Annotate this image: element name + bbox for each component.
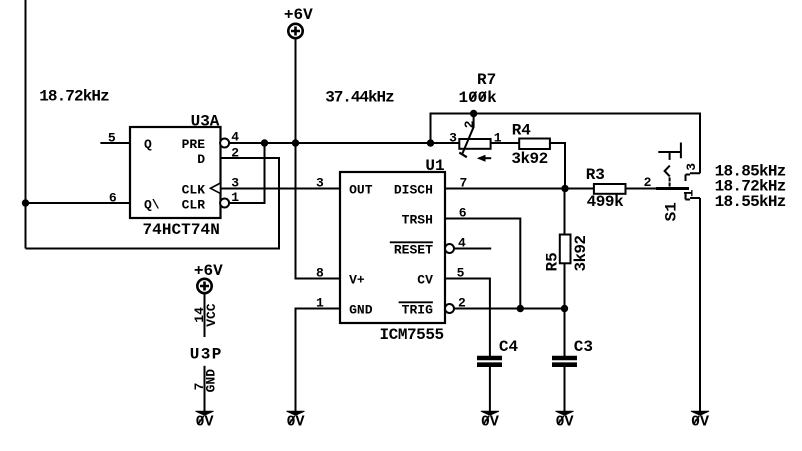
svg-text:3k92: 3k92 [572,235,590,272]
svg-text:37.44kHz: 37.44kHz [325,89,395,107]
svg-text:U1: U1 [425,157,444,175]
resistor R4 body [519,139,550,150]
junction TRIG-R5-C3 [561,305,568,312]
resistor R5 body [560,235,571,264]
svg-text:VCC: VCC [204,303,219,327]
svg-text:D: D [197,152,205,167]
svg-text:1: 1 [316,296,324,311]
svg-text:3: 3 [684,163,699,171]
svg-text:0V: 0V [287,414,305,431]
svg-text:U3P: U3P [190,345,222,363]
svg-text:S1: S1 [663,202,681,221]
svg-text:+6V: +6V [194,262,223,280]
svg-text:GND: GND [203,369,218,393]
pin bubble TRIG pin2 [445,304,454,313]
wire R7 pin1 to R4 [491,142,520,144]
wire CV pin5 to C4 [445,279,490,357]
svg-text:4: 4 [458,236,466,251]
wire GND pin1 down to ground [296,309,341,412]
switch S1 link dashes [669,177,671,186]
wire R5 bottom to C3 [564,263,566,356]
ground 0V at C4 [481,411,499,431]
svg-text:3: 3 [231,176,239,191]
ground 0V at S1 [691,411,709,431]
ground 0V at U3P [196,411,214,431]
svg-text:1: 1 [681,189,696,197]
wire R4 right down to DISCH net [550,143,565,189]
svg-text:2: 2 [462,120,477,128]
svg-text:3: 3 [449,131,457,146]
ground 0V at U1 GND [287,411,305,431]
switch S1 link upper segment [669,152,671,160]
wire +6V drop to V+ pin8 [296,39,341,279]
svg-text:5: 5 [457,266,465,281]
wire Q\ pin6 to left bus [26,202,131,204]
junction DISCH-R4-R3-R5 [561,185,568,192]
svg-text:0V: 0V [481,414,499,431]
svg-text:7: 7 [460,176,468,191]
svg-text:U3A: U3A [191,113,220,131]
svg-text:R5: R5 [544,252,562,271]
svg-text:TRIG: TRIG [402,302,433,317]
wire pin5 stub [100,142,130,144]
svg-text:C4: C4 [499,338,519,356]
wire RESET pin4 stub [454,248,491,250]
clock triangle CLK [211,183,221,194]
svg-text:Q: Q [144,137,152,152]
wire R5 top to DISCH junction [564,189,566,235]
junction at left bus / pin6 [22,199,29,206]
junction rail-PRE [427,139,434,146]
svg-text:1: 1 [494,131,502,146]
svg-text:0V: 0V [556,414,574,431]
svg-text:CLK: CLK [182,182,206,197]
switch S1 lever [656,187,689,190]
wire CLR up to PRE net [229,143,265,203]
svg-text:2: 2 [231,146,239,161]
wire U3P VCC pin [204,294,206,338]
op-amp U1 ICM7555 body [340,172,445,323]
switch S1 movable contact chevron [665,166,670,177]
wire S1 pin1 rail to ground [699,198,701,411]
svg-text:6: 6 [459,206,467,221]
svg-text:0V: 0V [196,414,214,431]
pin bubble PRE pin4 [220,139,229,148]
wire DISCH pin7 to R3 [445,188,594,190]
svg-text:R4: R4 [512,121,532,139]
svg-text:0V: 0V [691,414,709,431]
R7 adjust arrow [479,157,491,159]
svg-text:CLR: CLR [182,197,206,212]
svg-text:2: 2 [458,296,466,311]
wire C3 to ground [564,367,566,411]
wire PRE net to R7 pin3 [229,142,459,144]
junction CLR-PRE [261,139,268,146]
svg-text:PRE: PRE [182,137,206,152]
svg-text:+6V: +6V [284,6,313,24]
svg-text:ICM7555: ICM7555 [380,326,445,344]
resistor R7 body (trimmer) [459,139,490,149]
wire left vertical bus from top [25,0,27,249]
svg-text:100k: 100k [459,89,498,107]
switch S1 pin3 contact [686,173,701,181]
svg-text:8: 8 [316,266,324,281]
svg-text:5: 5 [108,131,116,146]
ground 0V at C3 [556,411,574,431]
svg-text:18.72kHz: 18.72kHz [39,88,110,106]
svg-text:R3: R3 [586,166,605,184]
svg-text:Q\: Q\ [144,197,160,212]
wire TRIG pin2 net [454,308,565,310]
junction R7 wiper-rail [470,110,477,117]
svg-text:RESET: RESET [394,242,433,257]
svg-text:CV: CV [417,272,433,287]
svg-text:499k: 499k [587,193,624,211]
svg-text:74HCT74N: 74HCT74N [143,221,220,239]
resistor R3 body [594,184,626,194]
junction TRSH-TRIG [517,305,524,312]
svg-text:TRSH: TRSH [402,212,433,227]
switch S1 pin1 contact [686,193,701,200]
wire CLK to U1 OUT [221,188,341,190]
switch S1 actuator T-bar [658,143,681,159]
wire top rail [431,114,701,174]
capacitor C4 plates [477,358,502,365]
capacitor C3 plates [552,358,577,365]
resistor R7 wiper arm [462,114,474,155]
junction +6V-PRE [292,139,299,146]
svg-text:C3: C3 [574,338,593,356]
wire TRSH pin6 down to TRIG net [445,219,520,309]
svg-text:V+: V+ [349,272,365,287]
wire bottom wrap from left bus to D [26,158,280,249]
svg-text:DISCH: DISCH [394,182,433,197]
svg-text:6: 6 [109,190,117,205]
pin bubble CLR pin1 [220,199,229,208]
svg-text:1: 1 [231,190,239,205]
svg-text:R7: R7 [477,71,496,89]
supply +6V top [288,24,302,38]
svg-text:3k92: 3k92 [511,150,548,168]
R7 wiper arrowhead foot [459,153,467,158]
flip-flop U3A body [130,127,221,218]
svg-text:GND: GND [349,302,373,317]
svg-text:OUT: OUT [349,182,373,197]
pin bubble RESET pin4 [445,244,454,253]
svg-text:2: 2 [644,175,652,190]
supply +6V U3P [197,279,211,293]
wire U3P GND pin [204,366,206,411]
svg-text:4: 4 [231,130,239,145]
svg-text:3: 3 [316,176,324,191]
svg-text:18.55kHz: 18.55kHz [715,193,787,211]
wire R3 to S1 pole [626,188,690,190]
wire C4 to ground [489,367,491,411]
